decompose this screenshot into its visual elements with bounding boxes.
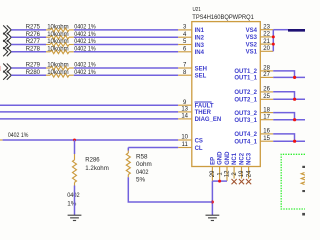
svg-text:OUT1_1: OUT1_1 [234,76,257,82]
svg-text:R275: R275 [26,24,41,31]
no-connect X on pin 2 [232,179,237,184]
wire R277 left segment [11,44,46,46]
svg-text:GND: GND [225,151,231,165]
junction dot OUT4 [293,140,296,143]
svg-text:0402 1%: 0402 1% [8,132,29,139]
svg-text:EP: EP [211,157,217,165]
U21 pin 13 (THER) stub [178,111,192,113]
svg-text:OUT2_1: OUT2_1 [234,98,257,104]
svg-text:VS3: VS3 [246,35,258,41]
U21 pin 5 (IN3) stub [178,44,192,46]
U21 pin 20 (VS1) stub [260,50,273,52]
svg-text:1%: 1% [67,201,77,208]
svg-text:TPS4H160BQPWPRQ1: TPS4H160BQPWPRQ1 [192,14,254,21]
resistor R275 10kohm 0402 1% [46,28,74,32]
svg-text:R286: R286 [85,156,100,163]
wire R276 left segment [11,36,46,38]
resistor R58 0ohm [127,148,129,151]
U21 pin 3 (IN1) stub [178,29,192,31]
wire OUT4_1 to right edge [273,140,305,142]
svg-text:10kohm: 10kohm [47,69,68,76]
U21 pin 18 (OUT3_2) stub [260,112,273,114]
svg-text:12: 12 [225,170,231,177]
svg-text:SEL: SEL [195,74,207,80]
svg-text:23: 23 [263,24,270,30]
svg-text:19: 19 [239,170,245,177]
svg-text:29: 29 [210,170,216,177]
wire EP/GND bottom tie [212,180,227,182]
U21 pin 29 (EP) bottom stub [211,167,213,182]
svg-text:VS4: VS4 [246,28,258,34]
svg-text:16: 16 [263,129,270,135]
svg-text:R276: R276 [26,31,41,38]
wire CL net [128,147,178,149]
svg-text:R279: R279 [26,62,41,69]
svg-text:OUT4_1: OUT4_1 [234,140,257,146]
svg-text:10kohm: 10kohm [47,38,68,45]
svg-text:15: 15 [263,136,270,142]
wire OUT3_2 jog [273,113,294,120]
svg-text:24: 24 [246,170,252,177]
svg-text:22: 22 [263,32,270,38]
wire R279 to U21 pin 7 [74,67,178,69]
svg-text:1: 1 [217,172,223,176]
off-page connector chevron for R277 [3,40,11,49]
svg-text:IN2: IN2 [195,36,205,42]
svg-text:U21: U21 [193,7,201,13]
U21 pin 27 (OUT1_1) stub [260,76,273,78]
svg-text:CL: CL [195,146,203,152]
partially visible resistor inside green box [301,173,307,185]
junction dot CS/R286 [73,139,76,142]
svg-text:R278: R278 [26,46,41,53]
wire R276 to U21 pin 4 [74,36,178,38]
junction dot ground node [211,201,214,204]
U21 pin 8 (SEL) stub [178,74,192,76]
svg-text:SEH: SEH [195,66,207,72]
svg-text:OUT1_2: OUT1_2 [234,69,257,75]
U21 pin 15 (OUT4_1) stub [260,140,273,142]
svg-text:14: 14 [181,114,188,120]
U21 pin 11 (CL) stub [178,147,192,149]
svg-text:11: 11 [182,142,189,148]
off-page connector chevron for R278 [3,47,11,56]
wire R279 left segment [11,67,46,69]
svg-text:OUT3_2: OUT3_2 [234,111,257,117]
svg-text:13: 13 [181,107,188,113]
svg-text:IN3: IN3 [195,43,205,49]
wire VS to right edge [273,29,288,31]
U21 pin 6 (IN4) stub [178,51,192,53]
svg-text:1.2kohm: 1.2kohm [85,165,109,172]
svg-text:FAULT: FAULT [195,104,214,110]
wire FAULT net [0,104,178,106]
wire THER net [0,111,178,113]
U21 pin 1 (GND) bottom stub [219,167,221,182]
U21 pin 9 (FAULT) stub [178,104,192,106]
junction dot VS2 [272,43,275,46]
svg-text:VS1: VS1 [246,50,258,56]
U21 pin 24 (NC3) bottom stub [248,167,250,179]
FAULT overbar [195,101,212,103]
wire OUT1_2 jog [273,71,294,78]
wire R58 to ground node [128,177,212,202]
wire EP down to ground [211,181,213,215]
svg-text:10: 10 [181,135,188,141]
IC U21 TPS4H160BQPWPRQ1 body [192,22,260,167]
U21 pin 17 (OUT3_1) stub [260,119,273,121]
ground symbol under EP [206,215,220,220]
svg-text:20: 20 [263,46,270,52]
U21 pin 14 (DIAG_EN) stub [178,118,192,120]
junction dot GND pin1 [218,180,221,183]
wire OUT2_1 to right edge [273,98,305,100]
svg-text:GND: GND [218,151,224,165]
svg-text:OUT4_2: OUT4_2 [234,132,257,138]
svg-text:NC1: NC1 [232,152,238,165]
wire DIAG_EN net [0,118,178,120]
ground symbol under R286 [68,215,82,220]
svg-text:10kohm: 10kohm [47,62,68,69]
text fragment below resistor in green box [302,190,305,192]
wire OUT3_1 to right edge [273,119,305,121]
svg-text:0402: 0402 [67,192,80,199]
svg-text:OUT3_1: OUT3_1 [234,118,257,124]
svg-text:0ohm: 0ohm [136,161,152,168]
svg-text:OUT2_2: OUT2_2 [234,90,257,96]
junction dot OUT1 [293,76,296,79]
off-page connector chevron for R275 [3,25,11,34]
junction dot VS3 [272,35,275,38]
resistor R280 10kohm 0402 1% [46,73,74,77]
wire R277 to U21 pin 5 [74,44,178,46]
U21 pin 4 (IN2) stub [178,36,192,38]
wire OUT2_2 jog [273,92,294,99]
faint page-edge mark at left [0,66,2,71]
svg-text:IN4: IN4 [195,50,205,56]
text fragment above resistor in green box [302,166,305,168]
junction dot OUT3 [293,118,296,121]
svg-text:VS2: VS2 [246,42,258,48]
wire CS net (off-page resistor lead enters at left edge) [0,139,3,141]
svg-text:10kohm: 10kohm [47,46,68,53]
svg-text:28: 28 [263,66,270,72]
svg-text:NC3: NC3 [247,152,253,165]
svg-text:R277: R277 [26,38,41,45]
wire R280 left segment [11,74,46,76]
resistor R276 10kohm 0402 1% [46,35,74,39]
svg-text:17: 17 [263,114,270,120]
U21 pin 25 (OUT2_1) stub [260,98,273,100]
resistor R286 1.2kohm [74,140,76,154]
U21 pin 16 (OUT4_2) stub [260,133,273,135]
U21 pin 19 (NC2) bottom stub [241,167,243,179]
wire OUT4_2 jog [273,134,294,141]
green dashed group box [281,154,305,209]
U21 pin 10 (CS) stub [178,139,192,141]
wire R280 to U21 pin 8 [74,74,178,76]
wire VS vertical joining pins 23-20 [272,30,274,52]
wire R275 left segment [11,29,46,31]
svg-text:25: 25 [263,94,270,100]
svg-text:DIAG_EN: DIAG_EN [195,117,222,123]
svg-text:NC2: NC2 [240,152,246,165]
svg-text:R58: R58 [136,153,148,160]
svg-text:26: 26 [263,87,270,93]
svg-text:2: 2 [232,172,238,176]
U21 pin 7 (SEH) stub [178,67,192,69]
svg-text:IN1: IN1 [195,28,205,34]
svg-text:THER: THER [195,110,212,116]
resistor R277 10kohm 0402 1% [46,43,74,47]
text fragment below green box [302,213,305,216]
off-page connector chevron for R280 [3,71,11,80]
off-page connector chevron for R279 [3,64,11,73]
no-connect X on pin 24 [246,179,251,184]
wire R278 to U21 pin 6 [74,51,178,53]
thick power bus line [288,29,305,32]
svg-text:10kohm: 10kohm [47,24,68,31]
wire R286 to ground [74,186,76,216]
junction dot OUT2 [293,98,296,101]
svg-text:R280: R280 [26,69,41,76]
svg-text:21: 21 [263,39,270,45]
wire R278 left segment [11,51,46,53]
U21 pin 28 (OUT1_2) stub [260,70,273,72]
svg-text:CS: CS [195,138,203,144]
U21 pin 2 (NC1) bottom stub [233,167,235,179]
U21 pin 21 (VS2) stub [260,43,273,45]
off-page connector chevron for R276 [3,33,11,42]
svg-text:10kohm: 10kohm [47,31,68,38]
resistor R279 10kohm 0402 1% [46,66,74,70]
svg-text:0402: 0402 [136,169,149,176]
svg-text:18: 18 [263,107,270,113]
resistor R278 10kohm 0402 1% [46,50,74,54]
U21 pin 12 (GND) bottom stub [226,167,228,182]
U21 pin 23 (VS4) stub [260,29,273,31]
wire R275 to U21 pin 3 [74,29,178,31]
wire OUT1_1 to right edge [273,76,305,78]
svg-text:27: 27 [263,72,270,78]
no-connect X on pin 19 [239,179,244,184]
U21 pin 26 (OUT2_2) stub [260,91,273,93]
svg-text:5%: 5% [136,177,146,184]
U21 pin 22 (VS3) stub [260,36,273,38]
